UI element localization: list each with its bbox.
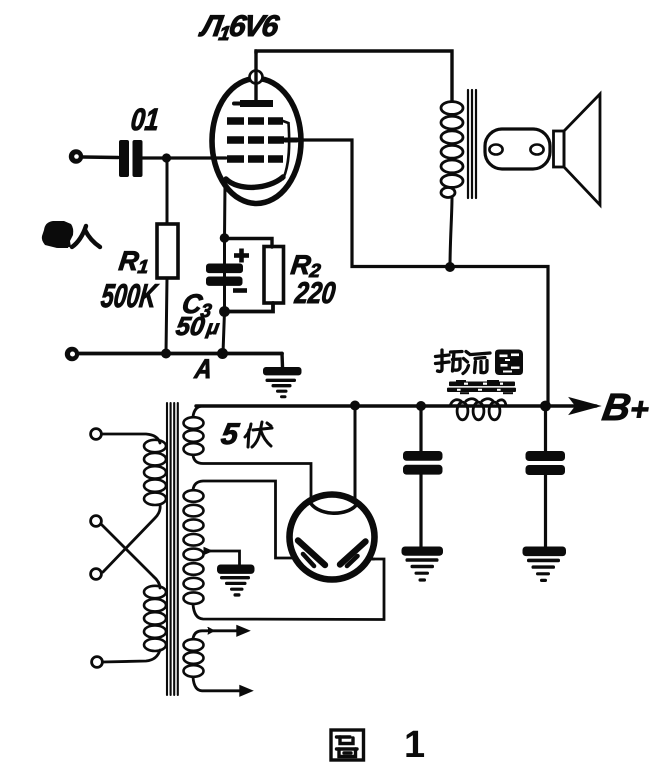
speaker voice coil <box>485 129 550 169</box>
wire cathode node to R2 top <box>225 239 273 248</box>
tube V1 envelope <box>212 79 301 204</box>
voice coil right dot <box>530 145 543 155</box>
filter capacitor C4 lead <box>419 406 422 451</box>
voice coil left dot <box>489 145 502 155</box>
T1 primary terminal 1 <box>91 429 102 440</box>
resistor R1 body <box>157 224 178 278</box>
T1 primary terminal 2 <box>91 516 102 527</box>
svg-text:01: 01 <box>129 102 161 137</box>
T1 5V winding <box>184 417 204 455</box>
T2 primary lead bottom <box>450 197 452 268</box>
cathode junction dot top <box>220 233 230 243</box>
crossed lead upper coil to terminal 3 <box>103 505 160 572</box>
wire input terminal to C1 <box>83 155 118 159</box>
T1 6.3V winding <box>184 639 204 677</box>
rectifier right plate tick <box>347 556 358 566</box>
power transformer T1 core <box>167 403 178 695</box>
grid row 2 dashes (screen) <box>227 136 284 144</box>
plate (anode) bar <box>240 100 273 107</box>
C5 lead to ground <box>544 475 547 547</box>
capacitor C3 plates <box>206 264 243 286</box>
rectifier left plate <box>298 541 325 566</box>
rectifier V2 envelope <box>290 495 375 580</box>
T1 primary lower coil <box>144 586 166 651</box>
ground G3 under C4 <box>402 547 444 582</box>
HV bottom lead to rectifier right plate <box>193 559 384 620</box>
wire junction down to R1 <box>166 158 169 224</box>
label figure (tu) <box>331 730 364 760</box>
label choke boxed char (quan) <box>495 350 523 376</box>
junction dot choke left / C4 <box>416 401 426 411</box>
grid row 3 dashes (control grid) <box>227 155 283 163</box>
capacitor C3 wire through <box>223 238 226 312</box>
6.3V bottom lead with arrow <box>193 677 241 691</box>
T1 primary terminal 3 <box>91 569 102 580</box>
svg-text:5: 5 <box>219 418 242 451</box>
crossed lead terminal 2 to lower coil <box>101 524 160 588</box>
svg-text:R1: R1 <box>117 245 151 278</box>
suppressor tie to cathode <box>283 121 289 179</box>
svg-text:1: 1 <box>404 724 425 765</box>
choke L1 core hatching <box>447 380 516 394</box>
input terminal J1 <box>69 149 83 163</box>
junction dot choke right / C5 <box>540 401 551 412</box>
wire bus to ground G1 <box>280 354 284 368</box>
capacitor C1 plates (01) <box>119 140 143 177</box>
junction dot T2 to screen bus <box>445 262 455 272</box>
C4 plates <box>403 451 443 475</box>
wire R1 bottom to ground bus <box>166 278 167 353</box>
C5 plates <box>526 451 566 475</box>
wire C3 to node A <box>223 312 225 354</box>
rectifier left plate tick <box>303 554 314 566</box>
T1 primary terminal 4 <box>92 657 103 668</box>
HV top lead to rectifier left plate <box>193 481 294 558</box>
svg-text:500K: 500K <box>99 278 160 315</box>
T2 core <box>468 90 476 198</box>
speaker horn <box>564 94 600 205</box>
6.3V top lead with arrow <box>193 631 238 639</box>
cathode arc <box>226 177 283 187</box>
plate lead top <box>254 51 257 100</box>
svg-text:50: 50 <box>174 311 207 341</box>
svg-text:220: 220 <box>292 277 337 310</box>
ground bus wire <box>79 352 282 356</box>
resistor R2 body <box>264 247 284 304</box>
label choke (e-liu-quan) <box>436 350 491 374</box>
rectifier right plate <box>340 542 366 565</box>
ground G1 <box>263 367 302 398</box>
HV center tap arrow <box>204 548 212 555</box>
wire C1 to grid of V1 <box>143 156 227 159</box>
speaker magnet block <box>554 131 565 167</box>
wire terminal1 to primary top coil <box>102 434 161 443</box>
svg-text:B+: B+ <box>600 386 649 429</box>
plate wire to output transformer <box>256 51 452 100</box>
node junction dot at grid/R1 <box>162 153 171 162</box>
B+ bus line <box>196 404 596 407</box>
T1 HV winding <box>184 490 204 604</box>
label input (shu-ru) <box>42 221 73 248</box>
filter capacitor C5 lead <box>544 406 547 451</box>
screen arrow head <box>285 138 297 143</box>
ground G2 center tap <box>217 565 255 597</box>
junction dot R1/bus <box>161 349 171 359</box>
rectifier V2 lead from B+ node <box>354 406 357 498</box>
junction dot node A <box>217 348 228 359</box>
screen wire to B+ line <box>292 140 548 406</box>
output transformer T2 primary winding <box>441 102 463 198</box>
svg-text:A: A <box>192 353 214 384</box>
rectifier right wire down to HV bottom <box>369 558 374 561</box>
junction dot bottom of C3 <box>219 306 230 317</box>
wire terminal4 to lower coil <box>103 650 161 662</box>
tube V1 top seal <box>250 71 263 84</box>
junction dot rectifier lead <box>350 401 360 411</box>
HV center tap wire <box>206 551 240 565</box>
C3 polarity minus <box>233 288 247 293</box>
B+ arrow <box>571 400 596 413</box>
C3 polarity plus <box>234 249 249 263</box>
svg-text:Л16V6: Л16V6 <box>197 10 282 45</box>
T1 primary upper coil <box>144 440 166 505</box>
cathode lead down <box>223 184 227 238</box>
5V winding bottom lead to rectifier filament <box>193 455 311 497</box>
lower input terminal J2 <box>65 347 79 361</box>
rectifier filament arc <box>309 500 358 513</box>
ground G4 under C5 <box>523 547 567 583</box>
C4 lead to ground <box>419 474 422 547</box>
choke L1 winding loops <box>450 399 506 420</box>
grid row 1 dashes <box>227 117 283 125</box>
5V winding top lead to B+ bus <box>193 406 202 417</box>
wire R2 bottom to node <box>225 303 274 312</box>
